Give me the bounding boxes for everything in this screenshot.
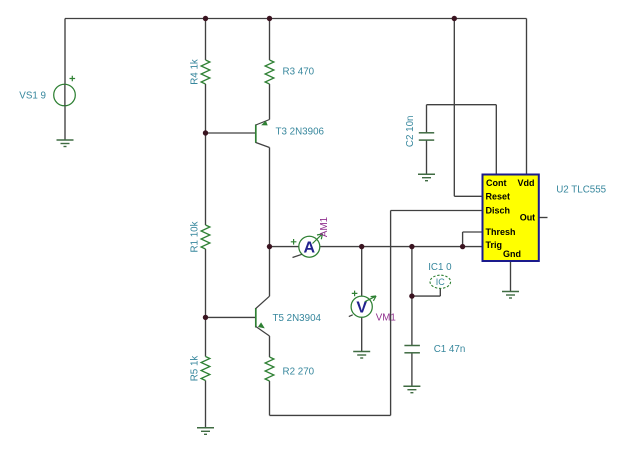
svg-text:R4 1k: R4 1k	[190, 59, 201, 85]
svg-text:V: V	[356, 300, 367, 317]
svg-text:VM1: VM1	[376, 313, 396, 324]
svg-text:VS1 9: VS1 9	[19, 90, 46, 101]
svg-text:AM1: AM1	[319, 217, 330, 237]
svg-text:Cont: Cont	[486, 178, 507, 188]
svg-text:T5 2N3904: T5 2N3904	[273, 313, 322, 324]
svg-text:U2 TLC555: U2 TLC555	[556, 184, 606, 195]
svg-text:R5 1k: R5 1k	[190, 356, 201, 382]
svg-text:R3 470: R3 470	[283, 67, 315, 78]
svg-text:T3 2N3906: T3 2N3906	[276, 127, 325, 138]
svg-text:Disch: Disch	[486, 206, 511, 216]
svg-text:Thresh: Thresh	[486, 227, 516, 237]
svg-text:Gnd: Gnd	[503, 249, 521, 259]
svg-text:Vdd: Vdd	[518, 178, 535, 188]
svg-text:IC: IC	[436, 277, 446, 287]
svg-text:Out: Out	[520, 213, 536, 223]
svg-text:IC1 0: IC1 0	[428, 262, 452, 273]
svg-text:C1 47n: C1 47n	[434, 344, 466, 355]
svg-text:R1 10k: R1 10k	[190, 221, 201, 252]
svg-text:Trig: Trig	[486, 240, 503, 250]
svg-text:R2 270: R2 270	[283, 367, 315, 378]
svg-text:Reset: Reset	[486, 192, 511, 202]
svg-text:C2 10n: C2 10n	[405, 116, 416, 148]
